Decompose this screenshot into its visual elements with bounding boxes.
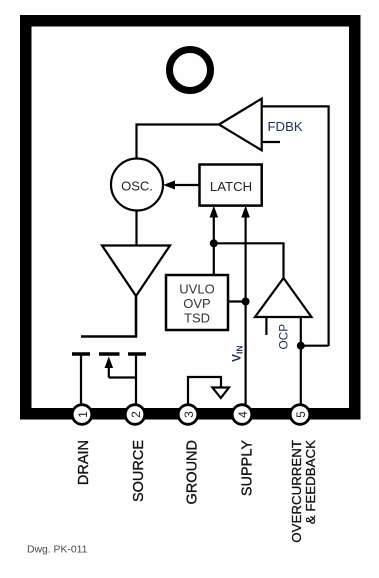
svg-text:SOURCE: SOURCE xyxy=(131,440,147,502)
UVLO OVP TSD block xyxy=(166,275,228,330)
svg-text:OSC.: OSC. xyxy=(121,178,153,193)
wire: UVLO top to LATCH left input xyxy=(213,209,215,275)
svg-text:OCP: OCP xyxy=(277,324,291,350)
svg-text:OVERCURRENT: OVERCURRENT xyxy=(289,440,304,543)
MOSFET body arrow xyxy=(108,364,110,378)
pin 1 indicator circle xyxy=(170,50,211,91)
pin 4 xyxy=(232,405,252,425)
feedback comparator FDBK xyxy=(219,99,262,151)
svg-text:4: 4 xyxy=(236,411,250,418)
package outline xyxy=(26,21,355,414)
OCP reference stub xyxy=(265,317,267,335)
pin 3 xyxy=(178,405,198,425)
wire: junction to OCP apex xyxy=(214,243,284,278)
wire: junction to feedback riser xyxy=(301,345,329,347)
svg-text:LATCH: LATCH xyxy=(210,179,252,194)
svg-text:FDBK: FDBK xyxy=(268,119,303,134)
ground arrow xyxy=(212,388,229,399)
svg-text:OVP: OVP xyxy=(183,296,210,311)
wire: FDBK input from feedback line xyxy=(262,106,329,346)
wire: OSC bottom to driver xyxy=(135,210,137,246)
OCP comparator triangle xyxy=(255,278,312,317)
svg-text:& FEEDBACK: & FEEDBACK xyxy=(303,440,318,524)
wire: pin 5 to OCP input xyxy=(300,317,302,404)
svg-text:Dwg. PK-011: Dwg. PK-011 xyxy=(27,544,88,555)
pin 1 xyxy=(72,405,92,425)
wire: drain to pin 1 xyxy=(80,354,82,404)
pin 2 xyxy=(125,405,145,425)
wire: UVLO to supply line xyxy=(228,300,246,302)
wire: pin 3 to ground symbol xyxy=(188,377,221,404)
gate driver triangle xyxy=(102,246,170,297)
oscillator OSC xyxy=(111,159,163,211)
svg-text:DRAIN: DRAIN xyxy=(76,440,92,485)
MOSFET channel bars xyxy=(72,352,90,356)
svg-text:SUPPLY: SUPPLY xyxy=(240,440,256,496)
FDBK reference stub xyxy=(262,141,280,143)
junction: OCP output joins xyxy=(210,239,218,247)
junction: feedback tap xyxy=(297,342,305,350)
latch block xyxy=(200,165,262,206)
junction: supply to UVLO xyxy=(242,298,250,306)
svg-text:1: 1 xyxy=(76,411,90,418)
svg-text:2: 2 xyxy=(129,411,143,418)
svg-text:UVLO: UVLO xyxy=(179,282,214,297)
wire: driver to MOSFET gate xyxy=(81,296,136,337)
svg-text:3: 3 xyxy=(182,411,196,418)
pin 5 xyxy=(290,405,310,425)
svg-text:5: 5 xyxy=(294,411,308,418)
svg-text:TSD: TSD xyxy=(184,311,210,326)
wire: source to pin 2 xyxy=(135,354,137,404)
wire: FDBK apex to OSC top xyxy=(137,125,220,161)
wire: LATCH to OSC with arrow xyxy=(170,184,200,186)
svg-text:GROUND: GROUND xyxy=(185,440,201,504)
wire: pin 4 supply line to LATCH xyxy=(245,209,247,404)
